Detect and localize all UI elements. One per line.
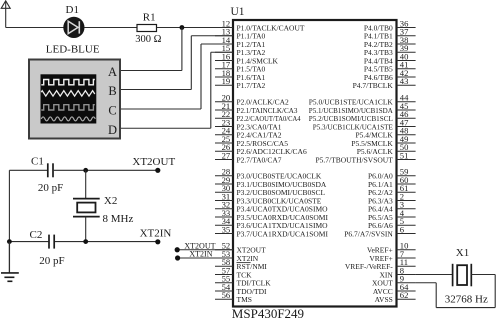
pin 52 XT2OUT [215, 241, 266, 255]
wire scope B [121, 36, 234, 90]
pin 59 P6.0/A0 [368, 167, 416, 181]
pin 11 VREF-/VeREF- [345, 257, 416, 271]
pin 61 P6.2/A2 [368, 183, 416, 197]
pin 5 P6.6/A6 [368, 216, 416, 230]
svg-text:62: 62 [400, 290, 409, 300]
svg-text:27: 27 [222, 150, 231, 160]
label X2 [104, 195, 117, 207]
pin 53 XT2IN [215, 249, 259, 263]
svg-text:B: B [108, 84, 116, 98]
pin 2 P6.3/A3 [368, 191, 416, 205]
label XT2IN pin net [189, 250, 212, 259]
svg-text:TMS: TMS [237, 295, 252, 304]
node XT2OUT terminal [155, 168, 160, 173]
svg-text:A: A [108, 65, 117, 79]
pin 30 P3.2/UCB0SOMI/UCB0SCL [215, 183, 325, 197]
svg-text:P2.7/TA0/CA7: P2.7/TA0/CA7 [237, 155, 282, 164]
waveform channel B triangle [41, 91, 95, 96]
pin 10 VeREF+ [367, 241, 416, 255]
pin 38 P4.2/TB2 [364, 35, 416, 49]
pin 25 P2.5/ROSC/CA5 [215, 134, 288, 148]
node XT2OUT pin terminal [175, 247, 180, 252]
svg-text:56: 56 [222, 290, 231, 300]
label XT2IN net [140, 227, 172, 239]
svg-text:X2: X2 [104, 195, 117, 207]
pin 13 P1.1/TA0 [215, 27, 266, 41]
label 32768 Hz [445, 293, 488, 305]
label 20 pF [38, 182, 63, 194]
label C2 [30, 229, 43, 241]
pin 26 P2.6/ADC12CLK/CA6 [215, 142, 307, 156]
wire XT2OUT to pin 52 [177, 249, 233, 251]
pin 54 TDO/TDI [215, 282, 267, 296]
pin 21 P2.1/TAINCLK/CA3 [215, 101, 298, 115]
pin 18 P1.6/TA1 [215, 68, 266, 82]
pin 39 P4.3/TB3 [364, 43, 416, 57]
svg-text:C2: C2 [30, 229, 43, 241]
ground [1, 242, 19, 282]
pin 23 P2.3/CA0/TA1 [215, 117, 282, 131]
wire [55, 241, 158, 243]
svg-text:20 pF: 20 pF [39, 255, 64, 267]
pin 56 TMS [215, 290, 252, 304]
label channel C [108, 104, 116, 118]
label channel A [108, 65, 117, 79]
svg-text:300 Ω: 300 Ω [135, 34, 161, 45]
pin 34 P3.6/UCA1TXD/UCA1SIMO [215, 216, 328, 230]
pin 58 RSTNMI [215, 257, 267, 271]
node XT2IN pin terminal [175, 255, 180, 260]
capacitor C2 [49, 235, 54, 249]
label XT2OUT pin net [184, 241, 215, 250]
pin 7 VREF+ [369, 249, 415, 263]
pin 48 P5.4/MCLK [355, 126, 415, 140]
pin 64 AVCC [373, 282, 416, 296]
svg-text:R1: R1 [143, 12, 156, 24]
pin 16 P1.4/SMCLK [215, 51, 279, 65]
pin 8 XIN [379, 265, 415, 279]
svg-text:XT2IN: XT2IN [140, 227, 172, 239]
pin 49 P5.5/SMCLK [351, 134, 415, 148]
pin 24 P2.4/CA1/TA2 [215, 126, 282, 140]
op-amp U1 MSP430F249 body [233, 20, 397, 307]
pin 57 TCK [215, 265, 252, 279]
pin 9 XOUT [372, 274, 416, 288]
label R1 [143, 12, 156, 24]
wire [6, 27, 64, 29]
svg-text:XT2IN: XT2IN [189, 250, 212, 259]
svg-text:8 MHz: 8 MHz [103, 213, 134, 225]
svg-text:P4.7/TBCLK: P4.7/TBCLK [353, 81, 394, 90]
label C1 [31, 156, 44, 168]
label D1 [66, 4, 79, 16]
label 300 ohm [135, 34, 161, 45]
power arrow [1, 1, 10, 28]
svg-text:P5.7/TBOUTH/SVSOUT: P5.7/TBOUTH/SVSOUT [315, 155, 393, 164]
pin 41 P4.5/TB5 [364, 60, 416, 74]
label MSP430F249 [232, 306, 304, 320]
LED D1 [63, 17, 84, 38]
svg-text:P3.7/UCA1RXD/UCA1SOMI: P3.7/UCA1RXD/UCA1SOMI [237, 229, 329, 238]
pin 37 P4.1/TB1 [364, 27, 416, 41]
svg-text:P6.7/A7/SVSIN: P6.7/A7/SVSIN [344, 229, 393, 238]
svg-text:D1: D1 [66, 4, 79, 16]
pin 19 P1.7/TA2 [215, 76, 266, 90]
svg-text:51: 51 [400, 150, 409, 160]
pin 33 P3.5/UCA0RXD/UCA0SOMI [215, 208, 328, 222]
wire scope D [121, 52, 234, 128]
node A junction [180, 25, 185, 30]
crystal X1 [453, 264, 472, 287]
waveform channel A square [41, 80, 95, 85]
pin 45 P5.1/UCB1SIMO/UCB1SDA [309, 101, 416, 115]
wire [54, 169, 158, 171]
pin 15 P1.3/TA2 [215, 43, 266, 57]
pin 43 P4.7/TBCLK [353, 76, 416, 90]
node XT2IN junction [83, 239, 88, 244]
pin 29 P3.1/UCB0SIMO/UCB0SDA [215, 175, 327, 189]
svg-text:19: 19 [222, 76, 231, 86]
pin 62 AVSS [375, 290, 416, 304]
svg-text:20 pF: 20 pF [38, 182, 63, 194]
label U1 [231, 6, 245, 18]
pin 17 P1.5/TA0 [215, 60, 266, 74]
pin 6 P6.7/A7/SVSIN [344, 224, 415, 238]
pin 14 P1.2/TA1 [215, 35, 266, 49]
svg-text:43: 43 [400, 76, 409, 86]
svg-text:D: D [108, 123, 117, 137]
wire [9, 241, 48, 243]
wire [157, 27, 234, 29]
label channel B [108, 84, 116, 98]
pin 60 P6.1/A1 [368, 175, 416, 189]
pin 4 P6.5/A5 [368, 208, 416, 222]
label LED-BLUE [46, 44, 100, 56]
label 8 MHz [103, 213, 134, 225]
node XT2OUT junction [83, 168, 88, 173]
capacitor C1 [48, 163, 53, 177]
label channel D [108, 123, 117, 137]
crystal X2 [73, 170, 100, 241]
pin 50 P5.6/ACLK [357, 142, 416, 156]
label XT2OUT net [132, 156, 175, 168]
label X1 [456, 247, 469, 259]
svg-text:AVSS: AVSS [375, 295, 393, 304]
node XT2IN terminal [155, 239, 160, 244]
pin 12 P1.0/TACLK/CAOUT [215, 18, 305, 32]
wire [9, 170, 47, 241]
svg-text:LED-BLUE: LED-BLUE [46, 44, 100, 56]
pin 44 P5.0/UCB1STE/UCA1CLK [309, 93, 416, 107]
svg-text:C1: C1 [31, 156, 44, 168]
pin 47 P5.3/UCB1CLK/UCA1STE [313, 117, 416, 131]
wire scope C [121, 44, 234, 109]
wire scope A [121, 28, 182, 71]
pin 22 P2.2/CAOUT/TA0/CA4 [215, 109, 301, 123]
svg-text:MSP430F249: MSP430F249 [232, 306, 304, 320]
svg-text:C: C [108, 104, 116, 118]
pin 31 P3.3/UCB0CLK/UCA0STE [215, 191, 322, 205]
pin 27 P2.7/TA0/CA7 [215, 150, 282, 164]
pin 32 P3.4/UCA0TXD/UCA0SIMO [215, 200, 328, 214]
node C2 left junction [7, 239, 12, 244]
svg-text:U1: U1 [231, 6, 245, 18]
svg-text:XT2OUT: XT2OUT [132, 156, 175, 168]
svg-text:32768 Hz: 32768 Hz [445, 293, 488, 305]
pin 28 P3.0/UCB0STE/UCA0CLK [215, 167, 322, 181]
pin 3 P6.4/A4 [368, 200, 416, 214]
resistor R1 [137, 25, 157, 32]
wire XT2IN to pin 53 [178, 257, 233, 259]
pin 20 P2.0/ACLK/CA2 [215, 93, 289, 107]
pin 36 P4.0/TB0 [364, 18, 416, 32]
svg-text:X1: X1 [456, 247, 469, 259]
pin 40 P4.4/TB4 [364, 51, 416, 65]
wire XOUT loop [416, 275, 496, 308]
svg-text:35: 35 [222, 224, 231, 234]
pin 35 P3.7/UCA1RXD/UCA1SOMI [215, 224, 328, 238]
waveform channel D sine [41, 117, 95, 121]
wire XIN [416, 274, 453, 276]
pin 42 P4.6/TB6 [364, 68, 416, 82]
wire [85, 27, 138, 29]
oscilloscope screen [41, 74, 97, 123]
pin 51 P5.7/TBOUTH/SVSOUT [315, 150, 415, 164]
svg-text:6: 6 [400, 224, 405, 234]
oscilloscope body [29, 60, 120, 139]
pin 55 TDI/TCLK [215, 274, 271, 288]
svg-text:P1.7/TA2: P1.7/TA2 [237, 81, 266, 90]
label 20 pF [39, 255, 64, 267]
waveform channel C square [41, 105, 95, 110]
pin 46 P5.2/UCB1SOMI/UCB1SCL [309, 109, 416, 123]
